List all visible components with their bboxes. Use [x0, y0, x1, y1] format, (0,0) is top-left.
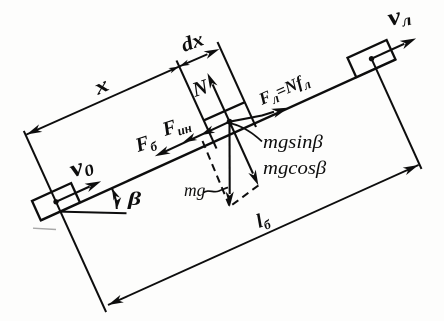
- svg-text:mgcosβ: mgcosβ: [263, 158, 326, 179]
- label x: [89, 73, 112, 100]
- mgsin label pointer curve: [232, 124, 263, 142]
- left extension line (perpendicular through left block): [24, 131, 106, 312]
- dashed projection mgsin tip to mg tip: [203, 141, 230, 206]
- svg-text:β: β: [127, 188, 142, 209]
- x dimension line: [27, 67, 180, 135]
- element center dot: [227, 119, 233, 125]
- dx dimension left arrowhead at tick: [179, 60, 190, 67]
- brake force Fb arrowhead: [155, 146, 171, 156]
- inclined rod (beam): [41, 60, 396, 221]
- element left edge extension: [177, 61, 217, 149]
- angle beta arc: [112, 188, 117, 209]
- label dx: [178, 27, 207, 56]
- l dimension left arrowhead: [108, 295, 124, 305]
- normal force N arrow: [213, 84, 230, 121]
- left block (sled at v0): [32, 183, 80, 220]
- l dimension right arrowhead: [403, 165, 419, 175]
- scan artifact smudge: [33, 228, 56, 229]
- velocity vl arrow: [372, 44, 405, 59]
- element right edge extension: [218, 42, 257, 127]
- label vl: [385, 0, 414, 33]
- right block (sled at vl): [348, 40, 396, 77]
- friction force Fl arrowhead: [271, 108, 289, 118]
- label mgsin(beta): [263, 132, 323, 153]
- dx dimension arrow: [179, 54, 207, 66]
- mg cos(beta) component arrow: [230, 122, 254, 174]
- velocity v0 arrow: [56, 187, 90, 202]
- inertial force Fin arrowhead: [183, 133, 198, 143]
- horizontal reference line for angle beta: [60, 212, 127, 214]
- down-slope force line (mgsin, Fin, Fb): [162, 122, 229, 153]
- label beta: [127, 188, 142, 209]
- label v0: [66, 149, 97, 184]
- mg label pointer squiggle: [203, 188, 228, 194]
- right extension line (from right block dot): [372, 59, 422, 169]
- right block pivot dot: [369, 56, 374, 61]
- friction force Fl arrow shaft: [230, 112, 275, 122]
- element top edge: [204, 102, 245, 120]
- beta arc lower arrowhead: [114, 197, 121, 209]
- beta arc upper arrowhead: [112, 188, 120, 200]
- mg sin(beta) arrowhead: [200, 126, 215, 136]
- svg-text:mg: mg: [184, 180, 206, 200]
- x dimension right arrowhead at tick: [168, 67, 179, 74]
- left block pivot dot: [53, 199, 58, 204]
- l dimension line: [108, 165, 419, 305]
- dashed projection mgcos tip to mg tip: [232, 185, 259, 205]
- x dimension left arrowhead: [27, 124, 43, 134]
- weight mg arrow: [228, 122, 230, 194]
- svg-text:mgsinβ: mgsinβ: [263, 132, 323, 153]
- label mgcos(beta): [263, 158, 326, 179]
